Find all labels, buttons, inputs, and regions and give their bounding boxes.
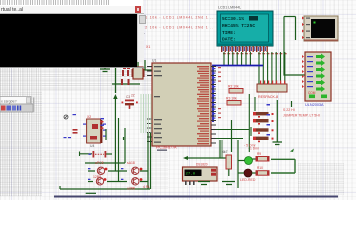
sheet border bottom — [54, 196, 338, 198]
wires MCU right to mid verticals — [216, 94, 255, 152]
terminal title text — [1, 7, 23, 13]
wire v1 — [114, 97, 116, 171]
svg-text:U1: U1 — [152, 59, 156, 63]
wire LED1 right — [271, 159, 295, 173]
svg-text:R1 10k - LCD1 LM044L 2Nd 1 ..: R1 10k - LCD1 LM044L 2Nd 1 .. — [142, 16, 213, 20]
wire mesh bottom-left — [60, 97, 151, 189]
svg-text:27.0: 27.0 — [186, 173, 196, 177]
dense horizontal band under terminal — [42, 67, 168, 92]
wire h y189 — [60, 186, 150, 189]
ground GND4 — [198, 182, 210, 185]
wire LED2 right — [271, 172, 295, 174]
DS18B20 pins — [185, 181, 195, 185]
svg-text:DATE:: DATE: — [222, 37, 236, 43]
resistor R2 (mid red) — [228, 85, 243, 94]
svg-text:ULN2003A: ULN2003A — [305, 103, 324, 107]
wire h y163 — [85, 162, 125, 164]
green junction arrow up — [113, 94, 117, 99]
transistor Q4 — [132, 178, 143, 185]
DS18B20 U3 — [183, 167, 218, 185]
MCU pin names right column (red) — [197, 66, 209, 144]
wires: LCD control pins down to bus — [224, 52, 250, 65]
wire: ground stub below terminal — [100, 60, 152, 93]
svg-text:C3: C3 — [126, 95, 130, 99]
resistor pack RN1 — [257, 81, 287, 93]
svg-text:- 5 Dmr: - 5 Dmr — [244, 144, 257, 148]
blue pin marks transistors — [88, 168, 123, 180]
MCU pin numbers blue right — [213, 68, 216, 119]
LED D2 red — [238, 169, 256, 182]
wire v3 — [124, 128, 126, 163]
transistor Q1 — [97, 167, 107, 174]
ULN2003 U2 — [299, 52, 331, 101]
pin labels of driver box right — [101, 118, 105, 129]
wires: LCD data pins down to resistor pack — [259, 52, 285, 84]
capacitor C1 plates — [122, 70, 129, 76]
floating toolbar popup — [0, 97, 34, 113]
capacitor C3 — [122, 95, 138, 109]
wire vertical left of crystal — [115, 66, 117, 93]
wire scope left — [284, 17, 305, 76]
opto/cap dashed red — [89, 151, 107, 158]
svg-text:5C=30.1%: 5C=30.1% — [222, 16, 244, 22]
MCU right pin stubs — [211, 67, 216, 144]
svg-text:S 22 HI: S 22 HI — [283, 108, 295, 112]
bus wire blue — [213, 66, 263, 123]
LCD LCD1 body — [217, 11, 273, 46]
wire under caps — [112, 83, 140, 85]
MCU U1 — [147, 63, 216, 146]
terminal window — [0, 6, 144, 15]
wire opto left lead — [80, 152, 93, 157]
wire v2 — [118, 118, 120, 181]
dense grid patch left below terminal — [0, 67, 42, 196]
svg-text:uPC8: uPC8 — [95, 161, 104, 165]
wire DS18B20 area — [186, 140, 228, 158]
scope pin arrows — [300, 16, 304, 39]
svg-text:X1: X1 — [146, 45, 150, 49]
svg-text:LCD1 LM044L: LCD1 LM044L — [218, 6, 241, 10]
small green bits — [106, 129, 124, 140]
svg-text:RESPACK-8: RESPACK-8 — [258, 95, 278, 99]
wire h y181 — [88, 181, 148, 183]
resistor R9 — [256, 152, 269, 161]
terminal close button — [135, 6, 142, 13]
MCU pin names left column (dark) — [154, 66, 162, 143]
blue pin labels right of resistors — [267, 104, 271, 136]
wire arrow left — [186, 157, 228, 159]
svg-text:X2: X2 — [87, 115, 91, 119]
dense grid bottom-left — [42, 150, 168, 190]
svg-text:TIME:: TIME: — [222, 30, 236, 36]
svg-text:2Z: 2Z — [131, 94, 135, 98]
small symbol circle-slash — [64, 115, 68, 119]
wire LED feed vertical — [237, 140, 239, 188]
resistor R10 — [256, 166, 269, 175]
component box (driver) — [83, 119, 106, 143]
LCD screen — [221, 14, 269, 42]
toolbar icons — [1, 106, 6, 111]
pale wires under MCU left — [141, 94, 151, 133]
svg-text:4 RL: 4 RL — [143, 185, 150, 189]
svg-text:R2 10k - LCD1 LM044L 2Nd 1 ..: R2 10k - LCD1 LM044L 2Nd 1 .. — [142, 26, 213, 30]
ground GND3 — [222, 182, 235, 185]
svg-text:RH=45% T=25C: RH=45% T=25C — [222, 23, 255, 29]
svg-text:R2 10k: R2 10k — [228, 85, 239, 89]
svg-text:LED-RED: LED-RED — [240, 178, 256, 182]
ground GND1 — [100, 64, 110, 72]
green arrow symbol — [290, 149, 294, 153]
resistor R3 (mid red) — [226, 97, 241, 106]
svg-text:x ssrg0e?: x ssrg0e? — [1, 99, 17, 103]
svg-text:R10: R10 — [257, 166, 263, 170]
transistor Q3 — [96, 178, 106, 185]
capacitor red bars left of box — [73, 129, 78, 134]
red pin numbers right of bus — [218, 67, 221, 118]
resistor R8 vertical — [222, 150, 232, 176]
svg-text:JUMPER TEMP. LT 5HI: JUMPER TEMP. LT 5HI — [283, 114, 320, 118]
wire v4 double — [147, 133, 149, 189]
svg-text:4k7: 4k7 — [222, 150, 228, 154]
svg-text:PIC16F877A: PIC16F877A — [156, 146, 177, 150]
ground GND2 (right) — [273, 100, 283, 145]
terminal scrollbar — [137, 14, 144, 62]
scope TV1 — [300, 16, 338, 41]
capacitor C2 plates — [121, 79, 130, 85]
terminal body — [0, 14, 137, 67]
transistor Q2 — [132, 167, 143, 174]
wire cap to v1 — [106, 153, 112, 155]
crystal X1 — [132, 67, 145, 79]
LCD pins — [220, 46, 268, 52]
svg-text:U4: U4 — [90, 144, 94, 148]
wire mid verticals — [231, 120, 233, 152]
small red component below terminal — [123, 66, 130, 69]
svg-text:u39B: u39B — [127, 187, 136, 191]
wire crystal top stub — [137, 62, 139, 67]
svg-text:R9: R9 — [257, 152, 261, 156]
red pin number labels under LCD pins — [223, 53, 287, 54]
wire stub y193 — [86, 192, 96, 194]
wire ULN down — [291, 101, 293, 107]
green driver symbols — [309, 54, 327, 99]
svg-text:DS1820: DS1820 — [196, 163, 208, 167]
MCU left pin stubs — [147, 67, 152, 142]
svg-text:COM: COM — [308, 91, 316, 95]
LED D1 green — [238, 144, 257, 165]
ruler ticks strip — [0, 0, 143, 6]
wire L to MCU left — [145, 60, 152, 70]
resistor column R4-R7 — [253, 104, 274, 142]
blue pin marks — [64, 114, 77, 138]
ULN left pins — [299, 55, 304, 88]
svg-text:sA18: sA18 — [127, 161, 135, 165]
svg-text:R3 10k: R3 10k — [226, 97, 237, 101]
wire h y171 — [88, 170, 148, 172]
dense grid bottom-right — [298, 163, 344, 195]
